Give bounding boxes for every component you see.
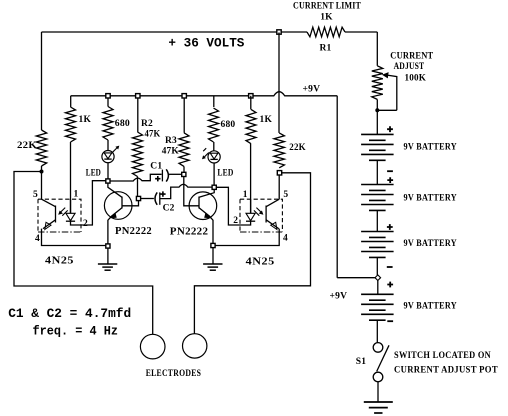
label + (C1) (155, 176, 160, 181)
resistor 1K right zigzag (246, 109, 256, 143)
opto U1 LED cathode bar (66, 220, 75, 222)
resistor R1 1K zigzag (307, 27, 345, 37)
potentiometer 100K zigzag (372, 66, 383, 100)
transistor Q2 circle (189, 192, 217, 220)
node Q1 collector junction (106, 179, 110, 183)
svg-text:9V BATTERY: 9V BATTERY (404, 193, 458, 203)
ground main (364, 401, 393, 403)
wire opto U1 pin2 to Q1 collector (71, 181, 106, 225)
svg-text:R2: R2 (141, 119, 153, 129)
junction dot pot wiper (375, 108, 379, 112)
ground Q1 (98, 263, 117, 265)
wire Q2 base from node (184, 177, 199, 206)
battery B2 9V (361, 184, 394, 186)
svg-text:1: 1 (243, 190, 248, 200)
opto U1 LED anode wire (70, 199, 72, 213)
wire +36V rail left segment (42, 31, 308, 33)
junction dot below 22K left (40, 170, 44, 174)
svg-text:R3: R3 (165, 136, 177, 146)
svg-text:47K: 47K (145, 129, 161, 139)
wire +36V rail down-left to 22K (41, 32, 43, 130)
label + battery4 (387, 282, 393, 288)
wire Q2 emitter to ground (212, 248, 214, 264)
node R2/C2/base junction (136, 196, 140, 200)
opto U2 phototransistor emitter (266, 220, 279, 229)
Q1 emitter arrowhead (110, 212, 117, 218)
wire base node to C2 (141, 198, 154, 200)
svg-text:9V BATTERY: 9V BATTERY (404, 239, 458, 249)
node junction R3 (182, 94, 186, 98)
svg-text:9V BATTERY: 9V BATTERY (404, 142, 458, 152)
wire LED left to collector node (107, 163, 109, 179)
wire Q2 emitter (199, 208, 213, 244)
opto U1 dashed box (38, 199, 81, 232)
label - battery4 (387, 320, 393, 322)
svg-text:5: 5 (283, 190, 288, 200)
svg-text:1K: 1K (260, 115, 273, 125)
svg-text:2: 2 (83, 219, 88, 229)
opto U1 phototransistor bar (55, 206, 57, 223)
opto U2 LED cathode bar (246, 220, 255, 222)
svg-text:freq. = 4 Hz: freq. = 4 Hz (33, 323, 119, 338)
node junction on +36V rail (277, 30, 281, 34)
wire C1 to R3 node (169, 173, 182, 175)
svg-text:4N25: 4N25 (45, 254, 74, 266)
svg-text:4: 4 (35, 234, 40, 244)
opto U2 LED anode wire (250, 199, 252, 213)
svg-text:ELECTRODES: ELECTRODES (146, 369, 202, 379)
battery B3 9V (361, 231, 394, 233)
wire R3 stem (183, 98, 185, 133)
opto U2 box bottom dash-dot (240, 231, 282, 233)
node junction R2 (136, 94, 140, 98)
opto U1 phototransistor emitter (43, 220, 56, 229)
wire switch to ground (377, 382, 379, 402)
svg-text:22K: 22K (289, 143, 306, 153)
switch S1 top contact (373, 343, 383, 353)
svg-text:+9V: +9V (330, 292, 348, 302)
svg-text:CURRENT LIMIT: CURRENT LIMIT (293, 2, 361, 12)
svg-text:R1: R1 (319, 44, 331, 54)
wire Q1 collector to C1 with hop over R2 (110, 174, 162, 181)
resistor 680 left zigzag (103, 107, 113, 141)
capacitor C2 flat plate (159, 192, 161, 204)
label - battery3 (387, 266, 393, 268)
pot wiper arm (386, 75, 397, 110)
pot wiper arrowhead (382, 72, 389, 78)
resistor 22K right zigzag (274, 133, 284, 168)
svg-text:CURRENT ADJUST POT: CURRENT ADJUST POT (394, 366, 498, 376)
opto U1 box bottom dash-dot (38, 231, 81, 233)
capacitor C2 curved plate (155, 192, 157, 204)
LED indicator left circle (102, 151, 114, 163)
opto U1 LED triangle (66, 213, 75, 220)
wire battery2 to battery3 (376, 210, 378, 231)
opto U1 emitter arrowhead (45, 222, 51, 229)
wire R1 to potentiometer (376, 32, 378, 66)
wire Q1 collector (108, 183, 122, 197)
switch S1 lever (377, 345, 389, 371)
wire 1K right stem (250, 96, 252, 110)
ground Q2 (203, 263, 222, 265)
battery B1 9V (361, 133, 394, 135)
opto U2 emitter arrowhead (271, 222, 277, 229)
wire +9V tap to battery stack (337, 277, 375, 279)
Q2 emitter arrowhead (204, 212, 211, 218)
wire rail end down to 1K left (70, 96, 72, 107)
resistor 22K left zigzag (36, 130, 46, 166)
transistor Q2 base bar (198, 197, 200, 209)
svg-text:+ 36 VOLTS: + 36 VOLTS (168, 36, 244, 51)
wire battery1 to battery2 (376, 160, 378, 184)
svg-text:LED: LED (217, 169, 233, 179)
svg-text:5: 5 (33, 190, 38, 200)
resistor R2 47K zigzag (133, 132, 143, 177)
wire 680 right to LED (213, 142, 215, 151)
svg-text:22K: 22K (17, 141, 37, 151)
wire R2 to base node (137, 177, 139, 197)
svg-text:47K: 47K (162, 147, 180, 157)
wire junction down to 22K right (278, 33, 280, 133)
node Q2 collector junction (212, 185, 216, 189)
svg-text:C1 & C2 = 4.7mfd: C1 & C2 = 4.7mfd (8, 306, 131, 321)
node pot wiper junction (377, 109, 397, 111)
wire 22K right down to opto2 pin5 (278, 175, 280, 199)
capacitor C1 curved plate (166, 169, 168, 181)
resistor R3 47K zigzag (179, 133, 189, 167)
wire +36V rail right segment (345, 31, 377, 33)
wire R2 stem (137, 98, 139, 132)
wire +9V rail with hop over 22K line (71, 92, 338, 96)
node junction 1K right (249, 94, 253, 98)
wire battery4 to switch (376, 320, 378, 342)
node Q1 emitter junction (106, 244, 110, 248)
svg-text:S1: S1 (356, 357, 366, 367)
label - battery1 (387, 170, 393, 172)
opto U2 phototransistor bar (265, 206, 267, 223)
electrode left circle (140, 334, 165, 359)
svg-text:680: 680 (221, 120, 236, 130)
wire R3 to C1 node (183, 166, 185, 172)
wire 680 left to LED (107, 140, 109, 151)
svg-text:C1: C1 (150, 162, 162, 172)
node R3/C1 junction (182, 172, 186, 176)
wire Q1 emitter (108, 208, 122, 244)
wire pot bottom (376, 99, 378, 134)
opto U2 LED triangle (246, 213, 255, 220)
node Q2 emitter junction (211, 243, 215, 247)
wire 22K left to electrode loop (14, 172, 153, 335)
LED right arrow (205, 153, 209, 157)
svg-text:4: 4 (283, 234, 288, 244)
node junction below 22K right (277, 171, 281, 175)
svg-text:ADJUST: ADJUST (394, 62, 425, 72)
svg-text:PN2222: PN2222 (170, 227, 209, 238)
label + battery3 (387, 224, 393, 230)
LED indicator right circle (208, 151, 220, 163)
resistor 680 right zigzag (209, 108, 219, 142)
transistor Q1 base bar (121, 197, 123, 209)
wire Q1 base from node (122, 201, 139, 206)
wire +9V rail right drop (336, 96, 338, 278)
svg-text:C2: C2 (163, 204, 175, 214)
svg-text:1: 1 (74, 190, 79, 200)
opto U2 light arrows (254, 208, 262, 216)
svg-text:1K: 1K (79, 115, 92, 125)
LED left arrow (113, 148, 117, 152)
label + battery2 (387, 177, 393, 183)
svg-text:100K: 100K (405, 73, 427, 83)
LED left cathode bar (104, 158, 111, 160)
svg-text:9V BATTERY: 9V BATTERY (404, 301, 458, 311)
svg-text:680: 680 (115, 119, 130, 129)
label + (C2) (160, 191, 165, 196)
LED left triangle (104, 153, 112, 159)
wire Q2 collector (199, 189, 214, 197)
label + battery1 (387, 126, 393, 132)
opto U1 phototransistor collector (42, 199, 56, 207)
capacitor C1 flat plate (161, 170, 163, 182)
wire 22K left to junction (41, 166, 43, 172)
opto U2 dashed box (240, 199, 282, 232)
wire LED right to collector node (213, 163, 215, 185)
wire opto U2 pin4 to Q2 emitter (215, 229, 279, 246)
switch S1 bottom contact (373, 372, 383, 382)
svg-text:SWITCH LOCATED ON: SWITCH LOCATED ON (394, 351, 491, 361)
opto U2 phototransistor collector (266, 199, 279, 207)
wire 1K right to opto2 pin1 (250, 144, 252, 214)
LED right triangle (210, 153, 218, 159)
resistor 1K left zigzag (66, 107, 76, 142)
wire 1K left to opto1 pin1 (70, 142, 72, 213)
svg-text:4N25: 4N25 (246, 255, 275, 267)
wire 22K left down to opto pin5 (41, 172, 43, 200)
node junction 680 left (106, 94, 110, 98)
wire battery3 to tap (376, 257, 378, 275)
svg-text:+9V: +9V (303, 85, 321, 95)
wire Q1 emitter to ground (107, 248, 109, 264)
svg-text:PN2222: PN2222 (115, 226, 152, 237)
battery B4 9V (361, 293, 394, 295)
wire 22K right to electrode loop (194, 173, 310, 334)
wire opto U1 pin4 to Q1 emitter (42, 229, 106, 246)
svg-text:1K: 1K (320, 13, 333, 23)
transistor Q1 circle (104, 192, 132, 220)
svg-text:LED: LED (86, 169, 101, 179)
wire tap to battery4 (377, 280, 379, 294)
wire opto U2 pin2 to Q2 collector (216, 187, 250, 225)
electrode right circle (183, 334, 207, 358)
LED right cathode bar (210, 158, 217, 160)
wire C2 to Q2 collector with hop over R3 riser (160, 184, 212, 198)
wire 680 left stem (107, 98, 109, 107)
opto U1 light arrows (60, 208, 68, 216)
wire 680 right stem (213, 96, 215, 107)
svg-text:CURRENT: CURRENT (390, 51, 433, 61)
node +9V battery tap diamond (375, 275, 381, 281)
